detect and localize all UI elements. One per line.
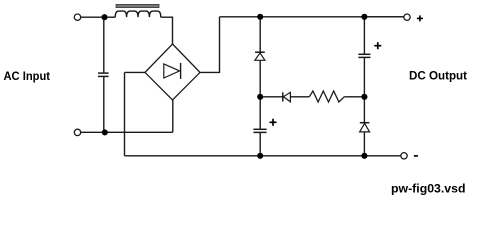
wire: right vertical bottom segment — [363, 132, 365, 156]
wire: right vertical branch top segment — [363, 17, 365, 54]
svg-text:AC Input: AC Input — [4, 69, 51, 83]
junction: top rail at middle branch — [257, 14, 263, 20]
resistor R1 zigzag — [309, 91, 344, 102]
wire: diode D2 to resistor R1 — [290, 96, 309, 98]
label + at DC output plus terminal — [417, 15, 423, 21]
capacitor C2 plates (middle branch) — [253, 129, 266, 132]
wire: resistor R1 to right junction — [344, 96, 364, 98]
label - at DC output minus terminal — [414, 155, 418, 157]
wire: middle vertical bottom segment — [259, 132, 261, 155]
wire: left branch vertical down to bottom rail — [124, 72, 126, 155]
wire: output + stub — [368, 16, 404, 18]
bridge rectifier BR1 diamond — [145, 44, 200, 100]
diode D3 triangle — [360, 123, 370, 131]
wire: top rail — [220, 16, 404, 18]
wire: inductor to bridge top corner — [161, 17, 173, 44]
diode D1 triangle — [255, 53, 265, 60]
wire: input capacitor vertical top segment — [103, 17, 105, 73]
wire: mid branch, junction to diode D2 — [260, 96, 283, 98]
wire: middle vertical, diode to mid junction — [259, 60, 261, 129]
capacitor C1 plates (input filter) — [98, 73, 109, 76]
wire: input capacitor vertical bottom segment — [103, 76, 105, 132]
wire: AC bottom terminal to bridge bottom — [81, 131, 173, 133]
junction: mid branch right — [361, 94, 367, 100]
terminal: DC output minus — [401, 153, 407, 159]
bridge rectifier diode symbol triangle — [164, 64, 180, 78]
diode D2 triangle — [283, 92, 290, 102]
label + for capacitor C2 — [270, 119, 277, 126]
junction: mid branch left — [257, 94, 263, 100]
wire: junction to inductor — [105, 16, 116, 18]
terminal: AC input top — [74, 14, 80, 20]
svg-text:DC Output: DC Output — [409, 69, 467, 83]
capacitor C3 plates (output filter) — [358, 54, 370, 57]
inductor L1 winding — [115, 11, 161, 17]
wire: bridge right corner to riser — [200, 17, 220, 73]
terminal: AC input bottom — [74, 129, 80, 135]
wire: bottom rail — [125, 155, 401, 157]
junction: input top — [101, 14, 107, 20]
bridge rectifier diode symbol cathode bar — [180, 63, 182, 79]
junction: bottom rail at middle branch — [257, 153, 263, 159]
diode D3 cathode bar (right branch, pointing up) — [360, 122, 370, 124]
label + for capacitor C3 — [374, 42, 381, 49]
wire: bridge left corner to left branch — [125, 71, 146, 73]
wire: AC top terminal to junction — [81, 16, 102, 18]
inductor L1 core bar — [116, 4, 159, 7]
wire: middle vertical branch top segment — [259, 17, 261, 52]
wire: bridge bottom corner down — [172, 100, 174, 132]
junction: input bottom — [102, 129, 108, 135]
diode D1 cathode bar (middle branch, pointing up) — [255, 51, 265, 53]
svg-text:pw-fig03.vsd: pw-fig03.vsd — [391, 182, 466, 196]
junction: top rail at right branch — [361, 14, 367, 20]
junction: bottom rail at right branch — [361, 153, 367, 159]
wire: right vertical, cap to mid junction — [363, 57, 365, 122]
diode D2 cathode bar (pointing left) — [282, 92, 284, 101]
terminal: DC output plus — [404, 14, 410, 20]
